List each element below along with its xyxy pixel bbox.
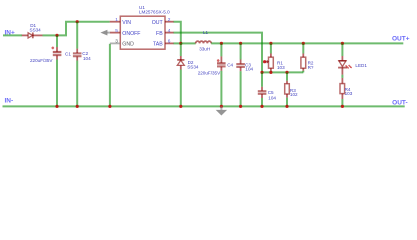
svg-text:LM2576SX-5.0: LM2576SX-5.0 — [139, 9, 170, 14]
junction VIN/C2 — [76, 20, 79, 23]
junction C5 bottom — [260, 105, 263, 108]
svg-text:104: 104 — [83, 56, 91, 61]
resistor R4 103 — [340, 78, 353, 107]
resistor R3 102 — [285, 72, 298, 106]
svg-text:2: 2 — [168, 17, 171, 23]
junction D2 bottom — [179, 105, 182, 108]
junction C3 top — [239, 42, 242, 45]
pin 1 VIN — [110, 21, 121, 23]
svg-text:6: 6 — [168, 39, 171, 45]
wire OUT pin to switch node — [174, 22, 181, 44]
junction switch node — [179, 42, 182, 45]
pin 2 OUT — [165, 21, 174, 23]
pin 3 GND — [110, 42, 120, 44]
diode D1 SS34 — [22, 23, 43, 38]
svg-text:ONOFF: ONOFF — [122, 31, 140, 37]
net flag ON/OFF gray arrow — [100, 30, 110, 36]
capacitor C4 220uF/35V — [198, 43, 234, 106]
svg-text:33uH: 33uH — [199, 46, 210, 51]
svg-text:LED1: LED1 — [355, 63, 367, 68]
wire output rail — [211, 42, 403, 44]
svg-text:102: 102 — [290, 92, 298, 97]
wire FB pin right and down to divider — [174, 33, 263, 73]
capacitor C5 104 — [258, 72, 277, 106]
junction node A — [55, 34, 58, 37]
svg-text:IN-: IN- — [5, 97, 14, 104]
capacitor C1 220uF/35V — [30, 35, 71, 106]
junction C3 bottom — [239, 105, 242, 108]
wire FB node — [262, 71, 303, 73]
junction LED top — [341, 42, 344, 45]
junction C4 bottom — [220, 105, 223, 108]
svg-text:GND: GND — [122, 42, 134, 48]
wire IN+ to D1 anode — [3, 34, 22, 36]
wire switch node to L1 — [181, 42, 196, 44]
wire GND pin down to bottom rail — [109, 44, 111, 107]
svg-text:5: 5 — [115, 28, 118, 34]
op-amp U1 LM2576SX-5.0 — [110, 5, 174, 49]
capacitor C3 104 — [236, 43, 253, 106]
junction R3 bottom — [285, 105, 288, 108]
resistor R2 R? — [301, 43, 314, 72]
junction R1 top — [269, 42, 272, 45]
svg-text:103: 103 — [345, 91, 353, 96]
junction R4 bottom — [341, 105, 344, 108]
capacitor C2 104 — [73, 22, 91, 107]
junction C2 bottom — [76, 105, 79, 108]
svg-text:C4: C4 — [227, 63, 233, 68]
svg-text:TAB: TAB — [153, 42, 163, 48]
node OUT+ port label — [392, 35, 410, 42]
ground — [216, 106, 227, 115]
svg-text:104: 104 — [268, 95, 276, 100]
svg-text:3: 3 — [115, 39, 118, 45]
svg-text:FB: FB — [156, 31, 163, 37]
svg-text:R?: R? — [308, 65, 314, 70]
wire LED to R4 — [341, 75, 343, 78]
inductor L1 33uH — [196, 30, 212, 51]
svg-text:104: 104 — [245, 66, 253, 71]
junction GND wire bottom — [108, 105, 111, 108]
junction C1 bottom — [55, 105, 58, 108]
svg-text:OUT: OUT — [152, 20, 164, 26]
svg-text:1: 1 — [115, 17, 118, 23]
junction R1 bottom — [269, 71, 272, 74]
wire TAB pin to switch node — [174, 42, 181, 44]
svg-text:OUT+: OUT+ — [392, 35, 410, 42]
junction R2 top — [302, 42, 305, 45]
LED LED1 — [338, 43, 367, 74]
svg-text:SS34: SS34 — [187, 65, 199, 70]
svg-text:L1: L1 — [203, 30, 209, 35]
svg-text:220uF/35V: 220uF/35V — [30, 58, 53, 63]
diode D2 SS34 — [177, 43, 199, 106]
junction C4 top — [220, 42, 223, 45]
node IN- port label — [5, 97, 14, 104]
resistor R1 103 potentiometer — [265, 43, 285, 72]
node OUT- port label — [392, 99, 408, 106]
svg-text:VIN: VIN — [122, 20, 131, 26]
svg-text:4: 4 — [168, 28, 171, 34]
svg-text:C1: C1 — [65, 51, 71, 56]
pin 5 ON/OFF — [110, 32, 120, 34]
junction R1 wiper on FB line — [263, 60, 266, 63]
pin 6 TAB — [165, 42, 174, 44]
wire D1 cathode to node A — [43, 34, 58, 36]
svg-text:OUT-: OUT- — [392, 99, 408, 106]
svg-text:103: 103 — [277, 65, 285, 70]
wire node A up to VIN line — [57, 22, 110, 36]
junction C5 top — [260, 71, 263, 74]
svg-text:220uF/35V: 220uF/35V — [198, 70, 221, 75]
node IN+ port label — [5, 29, 16, 36]
svg-text:SS34: SS34 — [30, 28, 42, 33]
junction R3 top — [285, 71, 288, 74]
pin 4 FB — [165, 32, 174, 34]
wire bottom rail — [3, 105, 405, 107]
